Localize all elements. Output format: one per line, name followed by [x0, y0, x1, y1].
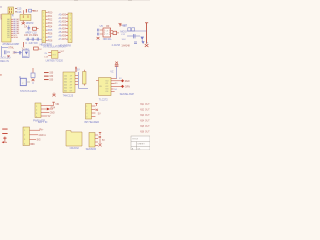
IC U3	[63, 67, 80, 93]
svg-text:5V REGULATOR CKT: 5V REGULATOR CKT	[43, 46, 66, 49]
diode D4	[41, 107, 56, 110]
svg-text:10K 1% RES: 10K 1% RES	[24, 34, 38, 37]
svg-text:SIG: SIG	[37, 139, 41, 141]
svg-text:GND: GND	[50, 113, 55, 115]
svg-text:NRF24L: NRF24L	[103, 38, 113, 41]
svg-text:C: C	[14, 51, 16, 54]
capacitor C3	[23, 9, 38, 14]
connector J1 (power jack)	[20, 76, 30, 85]
connector JP6	[89, 132, 105, 147]
svg-text:N$1 OUT: N$1 OUT	[140, 104, 150, 106]
svg-text:RST: RST	[33, 10, 38, 13]
left edge dash	[0, 74, 2, 77]
svg-text:GND A: GND A	[39, 134, 47, 137]
svg-text:RG: RG	[53, 54, 57, 56]
svg-text:74HC125: 74HC125	[63, 95, 74, 98]
node tick top mid	[74, 0, 78, 2]
label net rows right edge	[140, 104, 150, 134]
capacitor C6	[98, 29, 103, 36]
svg-text:TITLE: TITLE	[132, 139, 138, 141]
JP3 wires	[41, 102, 60, 106]
svg-text:SENSOR: SENSOR	[86, 148, 97, 150]
ground GND2	[97, 37, 100, 39]
resistor network RN2	[83, 70, 86, 86]
JP4 wire 1	[30, 128, 45, 131]
pin header JP2	[68, 13, 72, 43]
svg-text:OUT: OUT	[60, 51, 65, 53]
capacitor C5	[26, 38, 43, 41]
svg-text:XTAL: XTAL	[8, 47, 14, 50]
svg-text:TLC272: TLC272	[99, 98, 109, 101]
resistor R2	[26, 47, 43, 51]
JP4 wire 2	[30, 134, 47, 137]
capacitor C7	[134, 34, 135, 38]
U1 pin rows with net labels	[7, 18, 20, 39]
diode D1	[140, 37, 144, 43]
connector JP5	[86, 103, 102, 119]
crystal Q1	[20, 15, 31, 21]
sheet frame top edge	[0, 0, 150, 2]
LED D3	[121, 85, 130, 89]
svg-text:PD1: PD1	[48, 16, 53, 18]
svg-text:VC: VC	[110, 72, 114, 74]
svg-text:PD2: PD2	[48, 20, 53, 22]
resistor R3	[111, 31, 119, 35]
JP2 pins	[59, 14, 69, 42]
svg-text:AD1: AD1	[62, 17, 67, 20]
battery holder B1	[66, 131, 82, 146]
capacitor C8	[134, 41, 149, 44]
svg-text:SENSE AMP: SENSE AMP	[120, 93, 135, 96]
JP1 pins	[46, 13, 53, 43]
svg-text:MOSI: MOSI	[120, 30, 126, 33]
IC U4	[96, 78, 121, 96]
svg-text:STATUS LEDS: STATUS LEDS	[20, 90, 37, 93]
JP4 wire 3	[30, 139, 41, 141]
svg-text:2.4GHZ: 2.4GHZ	[112, 44, 121, 47]
resistor R6	[44, 76, 54, 78]
antenna E1	[119, 23, 128, 27]
capacitor C11	[115, 62, 119, 67]
resistor R1	[33, 27, 39, 30]
svg-text:ATMEGA328P: ATMEGA328P	[2, 42, 19, 46]
svg-text:5V: 5V	[98, 114, 101, 116]
svg-text:VIN: VIN	[122, 25, 126, 28]
svg-text:CR2032: CR2032	[70, 147, 80, 150]
svg-text:RF: RF	[106, 25, 110, 28]
svg-text:N$3 OUT: N$3 OUT	[140, 115, 150, 117]
svg-text:PD0: PD0	[48, 13, 53, 15]
svg-text:C .1UF 50V: C .1UF 50V	[25, 42, 38, 45]
svg-text:SDA: SDA	[13, 36, 18, 39]
LED D2	[119, 78, 130, 83]
RF module U5	[100, 25, 111, 37]
svg-text:SHEET: SHEET	[137, 144, 145, 146]
svg-text:PD4: PD4	[48, 27, 53, 29]
capacitor C2	[15, 11, 22, 14]
svg-text:AD0: AD0	[62, 14, 67, 17]
svg-text:PD8: PD8	[48, 41, 53, 43]
svg-text:PD5: PD5	[48, 30, 53, 32]
svg-text:PD4: PD4	[51, 107, 56, 109]
regulator U2	[43, 46, 66, 59]
svg-text:N$2 OUT: N$2 OUT	[140, 109, 150, 111]
svg-text:ISP HEADER: ISP HEADER	[84, 121, 99, 124]
battery BT1 symbol	[2, 129, 8, 144]
svg-text:REG IN: REG IN	[0, 60, 9, 63]
svg-text:5V: 5V	[48, 116, 51, 118]
svg-text:AD5: AD5	[62, 31, 67, 34]
svg-text:AD4: AD4	[62, 28, 67, 31]
svg-text:AD7: AD7	[62, 38, 67, 41]
svg-text:NC: NC	[32, 144, 36, 146]
connector JP4	[23, 127, 30, 146]
svg-text:VIN: VIN	[55, 104, 59, 106]
svg-text:AD3: AD3	[62, 24, 67, 27]
svg-text:PD7: PD7	[48, 37, 53, 39]
node tick top right	[128, 0, 132, 2]
ground GND1	[22, 21, 25, 25]
svg-text:5V: 5V	[77, 69, 80, 71]
svg-text:V: V	[0, 5, 2, 9]
JP4 wire 4	[30, 144, 36, 146]
op-amp U6 circuit	[120, 23, 148, 44]
svg-text:N$5 OUT: N$5 OUT	[140, 126, 150, 128]
svg-text:10U: 10U	[122, 39, 126, 41]
svg-text:PD6: PD6	[48, 34, 53, 36]
capacitor C1	[15, 8, 22, 11]
transistor Q2	[31, 68, 35, 84]
oscillator Y2 circuit	[2, 46, 18, 57]
svg-text:5V: 5V	[102, 140, 105, 142]
crystal Y2	[14, 42, 29, 57]
connector JP3	[35, 103, 41, 119]
wire bus U3	[79, 72, 88, 89]
pin header JP1	[42, 11, 46, 43]
svg-text:1N4148: 1N4148	[121, 45, 130, 48]
svg-text:LM7805 TO220: LM7805 TO220	[46, 60, 64, 63]
resistor R5	[44, 73, 54, 75]
resistor array RN1	[8, 7, 14, 14]
svg-text:C16: C16	[17, 11, 22, 14]
svg-text:AD6: AD6	[62, 35, 67, 38]
svg-text:GRN: GRN	[125, 86, 130, 88]
JP3 wire 3	[41, 113, 55, 115]
capacitor C4	[24, 25, 30, 30]
svg-text:RED: RED	[125, 81, 130, 83]
JP3 wire 4	[41, 116, 51, 118]
svg-text:N$6 OUT: N$6 OUT	[140, 131, 150, 133]
title block	[131, 136, 150, 151]
resistor R7	[44, 80, 54, 82]
ground GND4	[52, 93, 55, 97]
svg-text:BATT IN: BATT IN	[38, 121, 48, 124]
microcontroller U1	[0, 14, 11, 42]
svg-text:AD2: AD2	[62, 21, 67, 24]
svg-text:PD3: PD3	[48, 23, 53, 25]
wire C11 to U4	[116, 66, 118, 78]
ground GND3	[145, 44, 149, 47]
svg-text:N$4 OUT: N$4 OUT	[140, 120, 150, 122]
